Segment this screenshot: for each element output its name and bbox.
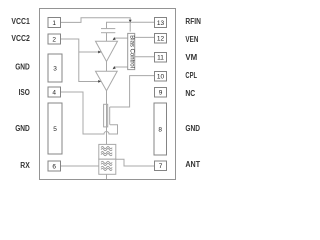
bias control block U1: [128, 33, 135, 69]
filter FL1 squiggle row 2: [101, 152, 112, 156]
wire coupler to TX filter: [106, 127, 108, 144]
filter FL2 squiggle row 2: [101, 166, 112, 170]
pin 6 box: [48, 161, 61, 171]
wire VCC1 pin1 to bias control top: [61, 18, 131, 32]
svg-text:RFIN: RFIN: [185, 17, 201, 26]
filter FL1 (TX low-pass) box: [99, 144, 116, 159]
svg-text:NC: NC: [185, 89, 195, 98]
coupler main line through: [106, 104, 108, 127]
svg-text:12: 12: [157, 36, 165, 43]
svg-text:VCC1: VCC1: [11, 17, 30, 26]
wire filter FL2 to module edge: [106, 174, 108, 179]
pin 11 box: [155, 53, 167, 63]
wire capacitor to amp1 input: [106, 33, 108, 41]
pin 4 box: [48, 87, 61, 97]
arrowhead into amp1 left edge: [98, 51, 101, 54]
wire VCC2 branch to amp1: [79, 51, 99, 53]
pin 7 box: [155, 161, 167, 171]
capacitor C1 bottom plate: [101, 32, 115, 34]
pin 2 box: [48, 34, 61, 44]
svg-text:13: 13: [157, 20, 165, 27]
svg-text:GND: GND: [15, 124, 30, 133]
svg-text:7: 7: [159, 163, 163, 170]
svg-text:ANT: ANT: [185, 160, 200, 169]
svg-text:ISO: ISO: [19, 88, 30, 97]
pin 3 box (GND): [48, 54, 62, 82]
directional coupler DC1 main line box: [104, 104, 108, 127]
wire amp2 output to coupler: [106, 91, 108, 105]
svg-text:3: 3: [53, 65, 57, 72]
filter FL2 squiggle row 1: [101, 161, 112, 165]
pin 9 box: [155, 88, 167, 98]
svg-text:11: 11: [157, 55, 164, 62]
svg-text:GND: GND: [185, 124, 200, 133]
svg-text:10: 10: [157, 74, 165, 81]
pin 13 box: [155, 18, 167, 28]
svg-text:CPL: CPL: [185, 71, 197, 80]
svg-text:5: 5: [53, 126, 57, 133]
wire bias control to VEN pin12: [135, 36, 155, 38]
pin 12 box: [155, 34, 167, 44]
svg-text:VM: VM: [185, 53, 197, 62]
arrowhead into amp2 left edge: [98, 80, 101, 83]
wire amp1 output to amp2 input: [106, 62, 108, 72]
svg-text:2: 2: [52, 36, 56, 43]
coupler coupled line: [109, 107, 111, 125]
svg-text:6: 6: [52, 163, 56, 170]
filter FL1 squiggle row 1: [101, 147, 112, 151]
svg-text:4: 4: [52, 89, 56, 96]
capacitor C1 top plate: [101, 28, 115, 30]
wire bias control to amp1: [115, 37, 128, 39]
svg-text:GND: GND: [15, 63, 30, 72]
wire VCC2 pin2 rail: [61, 39, 100, 82]
pin 1 box: [48, 18, 61, 28]
arrowhead into amp1 top: [113, 37, 116, 40]
pin 10 box: [155, 72, 167, 82]
svg-text:1: 1: [52, 20, 56, 27]
wire RX pin6 to filter FL2: [61, 165, 99, 167]
svg-text:VEN: VEN: [185, 35, 198, 44]
wire ISO pin4 to coupler isolated port with hop: [61, 92, 118, 134]
filter FL2 (RX low-pass) box: [99, 159, 116, 174]
svg-text:VCC2: VCC2: [11, 34, 30, 43]
op-amp A2 (second amplifier stage, pointing down): [96, 71, 118, 90]
wire bias control to amp2: [115, 66, 128, 68]
arrowhead into bias control: [129, 20, 132, 23]
op-amp A1 (first amplifier stage, pointing down): [96, 41, 118, 61]
svg-text:Bias Control: Bias Control: [128, 35, 134, 68]
arrowhead into amp2 top: [113, 66, 116, 69]
module outline: [40, 9, 176, 180]
wire filter junction to ANT pin7: [116, 159, 155, 166]
pin 5 box (GND): [48, 103, 62, 154]
svg-text:8: 8: [158, 126, 162, 133]
wire RFIN pin13 to coupling capacitor: [107, 22, 155, 28]
pin 8 box (GND): [154, 103, 167, 155]
svg-text:9: 9: [159, 90, 163, 97]
svg-text:RX: RX: [20, 161, 30, 170]
wire bias control to VM pin11: [135, 56, 155, 58]
wire coupled line to CPL pin10: [110, 76, 155, 107]
